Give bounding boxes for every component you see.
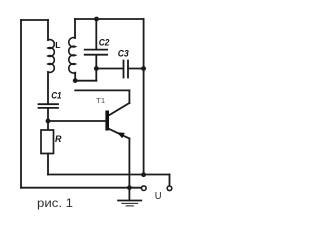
- wire: [20, 20, 22, 188]
- terminal (output circle B): [167, 186, 172, 191]
- wire: [47, 121, 49, 130]
- inductor (tank coil): [69, 38, 75, 73]
- svg-text:R: R: [55, 134, 62, 144]
- wire: [47, 109, 49, 121]
- svg-text:рис. 1: рис. 1: [37, 198, 73, 210]
- wire: [129, 68, 144, 70]
- wire: [74, 19, 76, 38]
- terminal (output circle A): [142, 186, 147, 191]
- capacitor C1: [39, 104, 59, 108]
- wire: [21, 19, 48, 21]
- wire: [108, 128, 130, 138]
- svg-text:C1: C1: [51, 90, 61, 100]
- wire: [96, 68, 122, 70]
- node (top C2 junction): [94, 17, 99, 22]
- resistor R: [41, 130, 54, 154]
- node (coil bottom junction): [73, 78, 78, 83]
- wire: [128, 139, 130, 200]
- wire: [47, 154, 49, 175]
- svg-text:L: L: [55, 40, 60, 50]
- wire: [128, 90, 130, 103]
- wire: [47, 20, 49, 40]
- emitter arrow (PNP): [117, 132, 125, 138]
- wire: [74, 73, 76, 81]
- wire: [143, 19, 145, 175]
- wire: [95, 56, 97, 69]
- wire: [108, 103, 130, 116]
- node (C2 bottom junction): [94, 66, 99, 71]
- wire: [48, 174, 170, 176]
- capacitor C3: [124, 61, 129, 78]
- svg-text:C3: C3: [118, 49, 129, 59]
- wire: [75, 18, 144, 20]
- inductor L: [48, 40, 54, 73]
- transistor T1: [105, 111, 109, 131]
- wire: [75, 89, 129, 91]
- wire: [75, 80, 96, 82]
- node (C1/R/base junction): [46, 119, 51, 124]
- wire: [95, 69, 97, 81]
- ground: [118, 200, 141, 202]
- wire: [47, 72, 49, 103]
- capacitor C2: [85, 50, 107, 55]
- wire: [48, 120, 105, 122]
- wire: [95, 19, 97, 49]
- node (emitter/ground junction): [127, 185, 132, 190]
- node (right rail/wire junction): [141, 172, 146, 177]
- node (C3/right rail junction): [141, 66, 146, 71]
- svg-text:C2: C2: [99, 37, 110, 48]
- svg-text:T1: T1: [96, 96, 105, 105]
- svg-text:U: U: [155, 190, 162, 202]
- wire: [169, 175, 171, 186]
- wire: [21, 187, 141, 189]
